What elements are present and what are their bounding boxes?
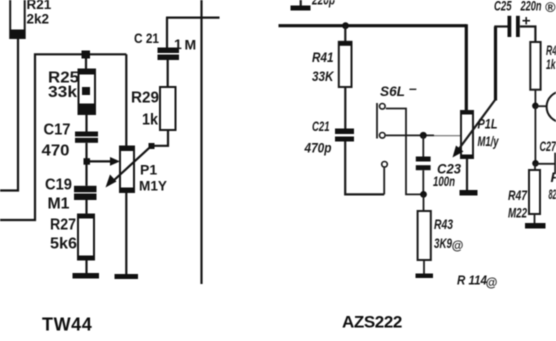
wire C17 to C19	[85, 143, 87, 186]
node junction at top of R25	[82, 51, 91, 59]
svg-text:AZS222: AZS222	[342, 313, 402, 332]
wire base node down	[534, 106, 536, 164]
svg-text:5k6: 5k6	[50, 236, 77, 253]
wire R45 to base node	[534, 90, 536, 106]
svg-text:C 21: C 21	[134, 30, 159, 46]
wire C19 to R27	[85, 200, 87, 215]
capacitor C17	[75, 132, 98, 143]
wire long vertical right side	[200, 0, 202, 284]
capacitor C21	[158, 48, 180, 61]
svg-text:1k: 1k	[546, 56, 556, 72]
svg-text:P1L: P1L	[478, 116, 498, 132]
capacitor C19	[74, 186, 97, 200]
svg-text:@: @	[486, 276, 498, 290]
wire P1 wiper to R29	[152, 130, 169, 146]
svg-text:M: M	[185, 37, 197, 53]
wire R25 to C17	[85, 114, 87, 132]
wire junction to C23	[422, 135, 424, 156]
node junction bus/R41	[342, 22, 349, 29]
wire bottom contact to bottom rail	[383, 168, 385, 195]
resistor R43	[418, 211, 431, 260]
capacitor 220p partial top	[291, 0, 311, 11]
svg-text:TW44: TW44	[42, 315, 92, 335]
wire wiper arrow into P1	[87, 160, 113, 162]
resistor R41	[339, 42, 352, 87]
svg-text:C17: C17	[44, 122, 71, 139]
wire top rail down through P1	[125, 54, 127, 146]
node junction C23 top	[420, 132, 427, 139]
wire C21 to top rail	[166, 18, 168, 48]
svg-text:M22: M22	[508, 205, 527, 221]
capacitor C25	[508, 16, 520, 37]
node junction bottom rail	[420, 191, 427, 198]
svg-text:220p: 220p	[311, 0, 335, 8]
node junction C27	[532, 160, 539, 167]
svg-text:R 114: R 114	[457, 274, 487, 288]
wire C21 down to bottom rail	[345, 142, 384, 195]
wire node to R47	[534, 163, 536, 170]
wire C25 right lead to R45	[520, 27, 536, 43]
switch contact top	[380, 104, 386, 110]
svg-text:470p: 470p	[304, 140, 332, 156]
svg-text:C19: C19	[45, 177, 72, 194]
ground bar under R27	[73, 273, 100, 279]
resistor R45	[530, 42, 540, 90]
switch S6L frame bar	[376, 103, 378, 139]
svg-text:R29: R29	[131, 90, 159, 107]
svg-text:M1Y: M1Y	[139, 178, 168, 194]
wire thick bus drop to P1L	[465, 24, 468, 111]
svg-text:®: ®	[545, 0, 556, 15]
svg-text:R43: R43	[434, 216, 453, 232]
svg-text:220n: 220n	[520, 0, 542, 14]
switch contact bottom	[382, 162, 388, 168]
wire P1 to ground	[125, 192, 127, 275]
resistor R29	[160, 87, 176, 130]
wire C25 left lead	[494, 25, 507, 27]
wire bus to R41	[344, 26, 346, 42]
wire top contact down to bottom rail	[386, 109, 424, 195]
svg-text:2k2: 2k2	[27, 12, 50, 27]
P1 diagonal wiper arrow	[106, 143, 155, 188]
svg-text:C27: C27	[540, 138, 556, 154]
wire R27 to ground	[85, 260, 87, 274]
svg-text:C25: C25	[494, 0, 512, 14]
svg-text:@: @	[452, 239, 464, 253]
svg-text:82: 82	[549, 186, 556, 202]
svg-text:100n: 100n	[433, 173, 455, 189]
wire supply bus	[279, 24, 467, 27]
ground bar under P1	[115, 274, 139, 279]
svg-text:R21: R21	[27, 0, 52, 12]
svg-text:470: 470	[42, 143, 70, 160]
wire R29 to C21	[167, 60, 169, 87]
wire junction to R43	[423, 194, 425, 211]
svg-text:–: –	[409, 80, 417, 96]
svg-text:R: R	[551, 169, 556, 185]
svg-text:M1/y: M1/y	[478, 133, 500, 149]
potentiometer P1	[120, 147, 134, 193]
svg-text:33K: 33K	[312, 68, 334, 84]
svg-text:3K9: 3K9	[434, 235, 452, 251]
wire node to C27	[536, 163, 555, 165]
plus sign C25	[523, 17, 531, 24]
svg-text:S6L: S6L	[380, 83, 405, 99]
wire from R21 down and left to edge	[0, 38, 18, 191]
wire R47 to ground	[534, 214, 536, 223]
wire top horizontal	[166, 17, 220, 19]
resistor R47	[529, 170, 540, 214]
transistor circle partial	[547, 91, 556, 122]
svg-text:R41: R41	[312, 49, 334, 65]
wire P1L to ground	[466, 158, 468, 190]
potentiometer P1L	[461, 111, 473, 158]
svg-text:1: 1	[174, 36, 182, 52]
ground bar under R47	[525, 223, 546, 229]
wire R43 to ground	[423, 260, 425, 274]
ground bar under R43	[416, 274, 434, 279]
node junction C17/C19/P1 wiper	[84, 158, 91, 165]
capacitor C23	[416, 157, 431, 171]
svg-text:M1: M1	[48, 196, 70, 213]
node junction base	[532, 103, 539, 110]
P1L diagonal wiper from C25	[453, 27, 496, 158]
ground bar under P1L	[460, 190, 478, 196]
resistor R27	[78, 215, 94, 260]
resistor R21	[10, 0, 25, 38]
svg-text:R27: R27	[50, 217, 76, 234]
wire middle contact to P1L	[386, 134, 434, 136]
capacitor C27 partial	[554, 153, 556, 173]
wire R41 to C21	[344, 87, 346, 129]
capacitor C21	[335, 129, 354, 142]
wire C23 to bottom rail	[422, 170, 424, 194]
resistor R25	[79, 70, 96, 115]
wire junction to R25	[85, 54, 87, 70]
wire base to transistor	[535, 105, 547, 107]
switch contact middle	[380, 133, 386, 139]
svg-text:33k: 33k	[48, 84, 77, 101]
svg-text:1k: 1k	[142, 112, 158, 129]
svg-text:R47: R47	[508, 187, 528, 203]
svg-text:C21: C21	[312, 118, 330, 134]
wire L-path top rail to left exit	[0, 54, 126, 220]
svg-text:P1: P1	[140, 162, 157, 178]
